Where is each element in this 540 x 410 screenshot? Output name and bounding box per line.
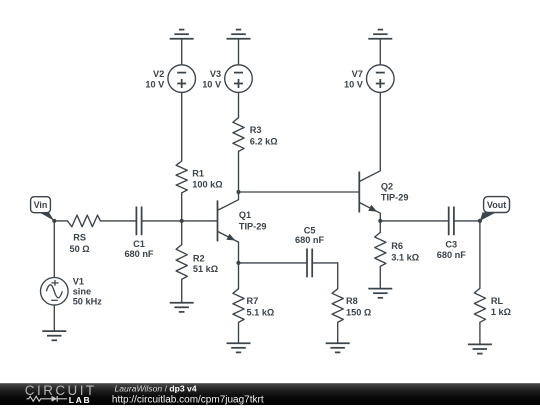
wire node to V1 — [53, 221, 55, 278]
resistor R7 — [233, 289, 244, 323]
svg-text:5.1 kΩ: 5.1 kΩ — [247, 307, 275, 317]
voltage source V3 — [225, 65, 253, 93]
RS value label — [70, 233, 90, 254]
voltage source V7 — [367, 65, 395, 93]
svg-text:V7: V7 — [352, 69, 363, 79]
net flag Vout — [480, 197, 510, 221]
ground below V1 — [42, 331, 66, 340]
svg-text:680 nF: 680 nF — [295, 235, 324, 245]
R8 value label — [346, 296, 371, 317]
node B junction — [180, 219, 184, 223]
svg-text:10 V: 10 V — [344, 80, 364, 90]
svg-text:R6: R6 — [391, 241, 403, 251]
svg-text:Vout: Vout — [487, 200, 506, 210]
node Vin junction — [52, 219, 56, 223]
svg-text:10 V: 10 V — [202, 80, 222, 90]
svg-text:sine: sine — [73, 287, 91, 297]
C5 value label — [295, 226, 324, 246]
svg-text:R1: R1 — [192, 169, 204, 179]
svg-text:Q2: Q2 — [381, 182, 393, 192]
resistor R8 — [332, 289, 343, 323]
V1 labels — [73, 277, 103, 307]
C1 value label — [124, 239, 153, 259]
svg-text:V3: V3 — [210, 69, 221, 79]
ground (flipped) above V7 — [368, 30, 392, 39]
node Vout junction — [478, 219, 482, 223]
resistor R6 — [375, 232, 386, 266]
node E2 junction — [378, 219, 382, 223]
svg-text:C5: C5 — [304, 226, 316, 236]
R2 value label — [193, 253, 218, 274]
wire ground to V2 — [181, 39, 183, 65]
svg-text:150 Ω: 150 Ω — [346, 307, 371, 317]
wire ground to V7 — [379, 39, 381, 65]
svg-text:R2: R2 — [193, 253, 205, 263]
svg-text:51 kΩ: 51 kΩ — [193, 264, 218, 274]
wire node B to Q1 base — [182, 220, 218, 222]
net flag Vin — [31, 197, 55, 221]
voltage source V3 labels — [202, 69, 222, 90]
transistor Q1 — [218, 200, 239, 242]
resistor RL — [474, 288, 485, 322]
capacitor C1 — [136, 207, 141, 236]
svg-text:RL: RL — [491, 296, 504, 306]
voltage source V2 labels — [145, 69, 165, 90]
RL value label — [491, 296, 511, 317]
svg-text:http://circuitlab.com/cpm7juag: http://circuitlab.com/cpm7juag7tkrt — [112, 395, 264, 405]
wire R1 to node B — [181, 193, 183, 221]
ground below R8 — [326, 343, 350, 352]
capacitor C3 — [449, 207, 454, 236]
wire V1 to ground — [53, 305, 55, 331]
capacitor C5 — [307, 249, 312, 278]
svg-text:50 Ω: 50 Ω — [70, 244, 90, 254]
svg-text:3.1 kΩ: 3.1 kΩ — [391, 252, 419, 262]
node C junction — [236, 190, 240, 194]
voltage source V7 labels — [344, 69, 364, 90]
wire Vout node to RL — [479, 221, 481, 288]
wire Q1 emitter to node E1 — [238, 242, 240, 263]
svg-text:C1: C1 — [133, 239, 145, 249]
svg-text:R8: R8 — [346, 296, 358, 306]
logo doodle: resistor + diode wire — [27, 396, 68, 402]
svg-text:Q1: Q1 — [239, 210, 251, 220]
svg-text:1 kΩ: 1 kΩ — [491, 307, 511, 317]
wire node E1 to R7 — [238, 263, 240, 289]
ground below R7 — [227, 343, 251, 352]
svg-text:LauraWilson / dp3 v4: LauraWilson / dp3 v4 — [115, 384, 197, 394]
ground below R2 — [170, 303, 194, 312]
wire RS to C1 — [100, 220, 136, 222]
svg-text:R7: R7 — [247, 296, 259, 306]
svg-text:100 kΩ: 100 kΩ — [192, 180, 222, 190]
wire R2 to ground — [181, 279, 183, 302]
wire node E2 to R6 — [379, 221, 381, 233]
Q1 labels — [239, 210, 267, 231]
wire Q2 collector to V7 — [379, 92, 381, 170]
ground (flipped) above V3 — [227, 30, 251, 39]
wire node E1 to C5 — [239, 262, 308, 264]
R1 value label — [192, 169, 222, 190]
C3 value label — [437, 240, 466, 260]
wire RL to ground — [479, 322, 481, 344]
wire node C to Q2 base — [239, 191, 360, 193]
svg-text:V1: V1 — [73, 277, 84, 287]
svg-text:TIP-29: TIP-29 — [381, 193, 409, 203]
wire R3 to node C — [238, 151, 240, 192]
R6 value label — [391, 241, 419, 262]
wire V2 to R1 — [181, 92, 183, 161]
wire C1 to node B — [142, 220, 182, 222]
R7 value label — [247, 296, 275, 317]
ground below R6 — [368, 289, 392, 298]
wire down to R8 — [337, 263, 339, 289]
wire V3 to R3 — [238, 92, 240, 117]
svg-text:680 nF: 680 nF — [437, 250, 466, 260]
transistor Q2 — [359, 171, 380, 213]
svg-text:C3: C3 — [445, 240, 457, 250]
wire C3 to node Vout — [454, 220, 480, 222]
svg-text:R3: R3 — [250, 125, 262, 135]
wire R6 to ground — [379, 266, 381, 288]
Q2 labels — [381, 182, 409, 203]
wire R7 to ground — [238, 322, 240, 343]
resistor R3 — [233, 118, 244, 152]
svg-text:6.2 kΩ: 6.2 kΩ — [250, 136, 278, 146]
svg-text:TIP-29: TIP-29 — [239, 221, 267, 231]
wire node B to R2 — [181, 221, 183, 245]
svg-text:Vin: Vin — [34, 200, 48, 210]
wire node E2 to C3 — [380, 220, 448, 222]
svg-text:680 nF: 680 nF — [124, 249, 153, 259]
wire Vin node to RS — [54, 220, 67, 222]
svg-text:50 kHz: 50 kHz — [73, 297, 103, 307]
svg-text:LAB: LAB — [69, 395, 92, 405]
wire ground to V3 — [238, 39, 240, 65]
wire C5 to R8 — [312, 262, 338, 264]
voltage source V1 (sine) — [41, 278, 69, 306]
svg-text:10 V: 10 V — [145, 80, 165, 90]
R3 value label — [250, 125, 278, 146]
wire R8 to ground — [337, 322, 339, 343]
svg-text:V2: V2 — [153, 69, 164, 79]
resistor R2 — [176, 245, 187, 280]
wire Q2 emitter to node E2 — [379, 213, 381, 221]
ground (flipped) above V2 — [170, 30, 194, 39]
ground below RL — [468, 344, 492, 353]
node E1 junction — [236, 261, 240, 265]
wire Q1 collector to node C — [238, 192, 240, 200]
resistor R1 — [176, 161, 187, 193]
svg-text:RS: RS — [73, 233, 86, 243]
voltage source V2 — [168, 65, 196, 93]
resistor RS — [67, 215, 100, 227]
